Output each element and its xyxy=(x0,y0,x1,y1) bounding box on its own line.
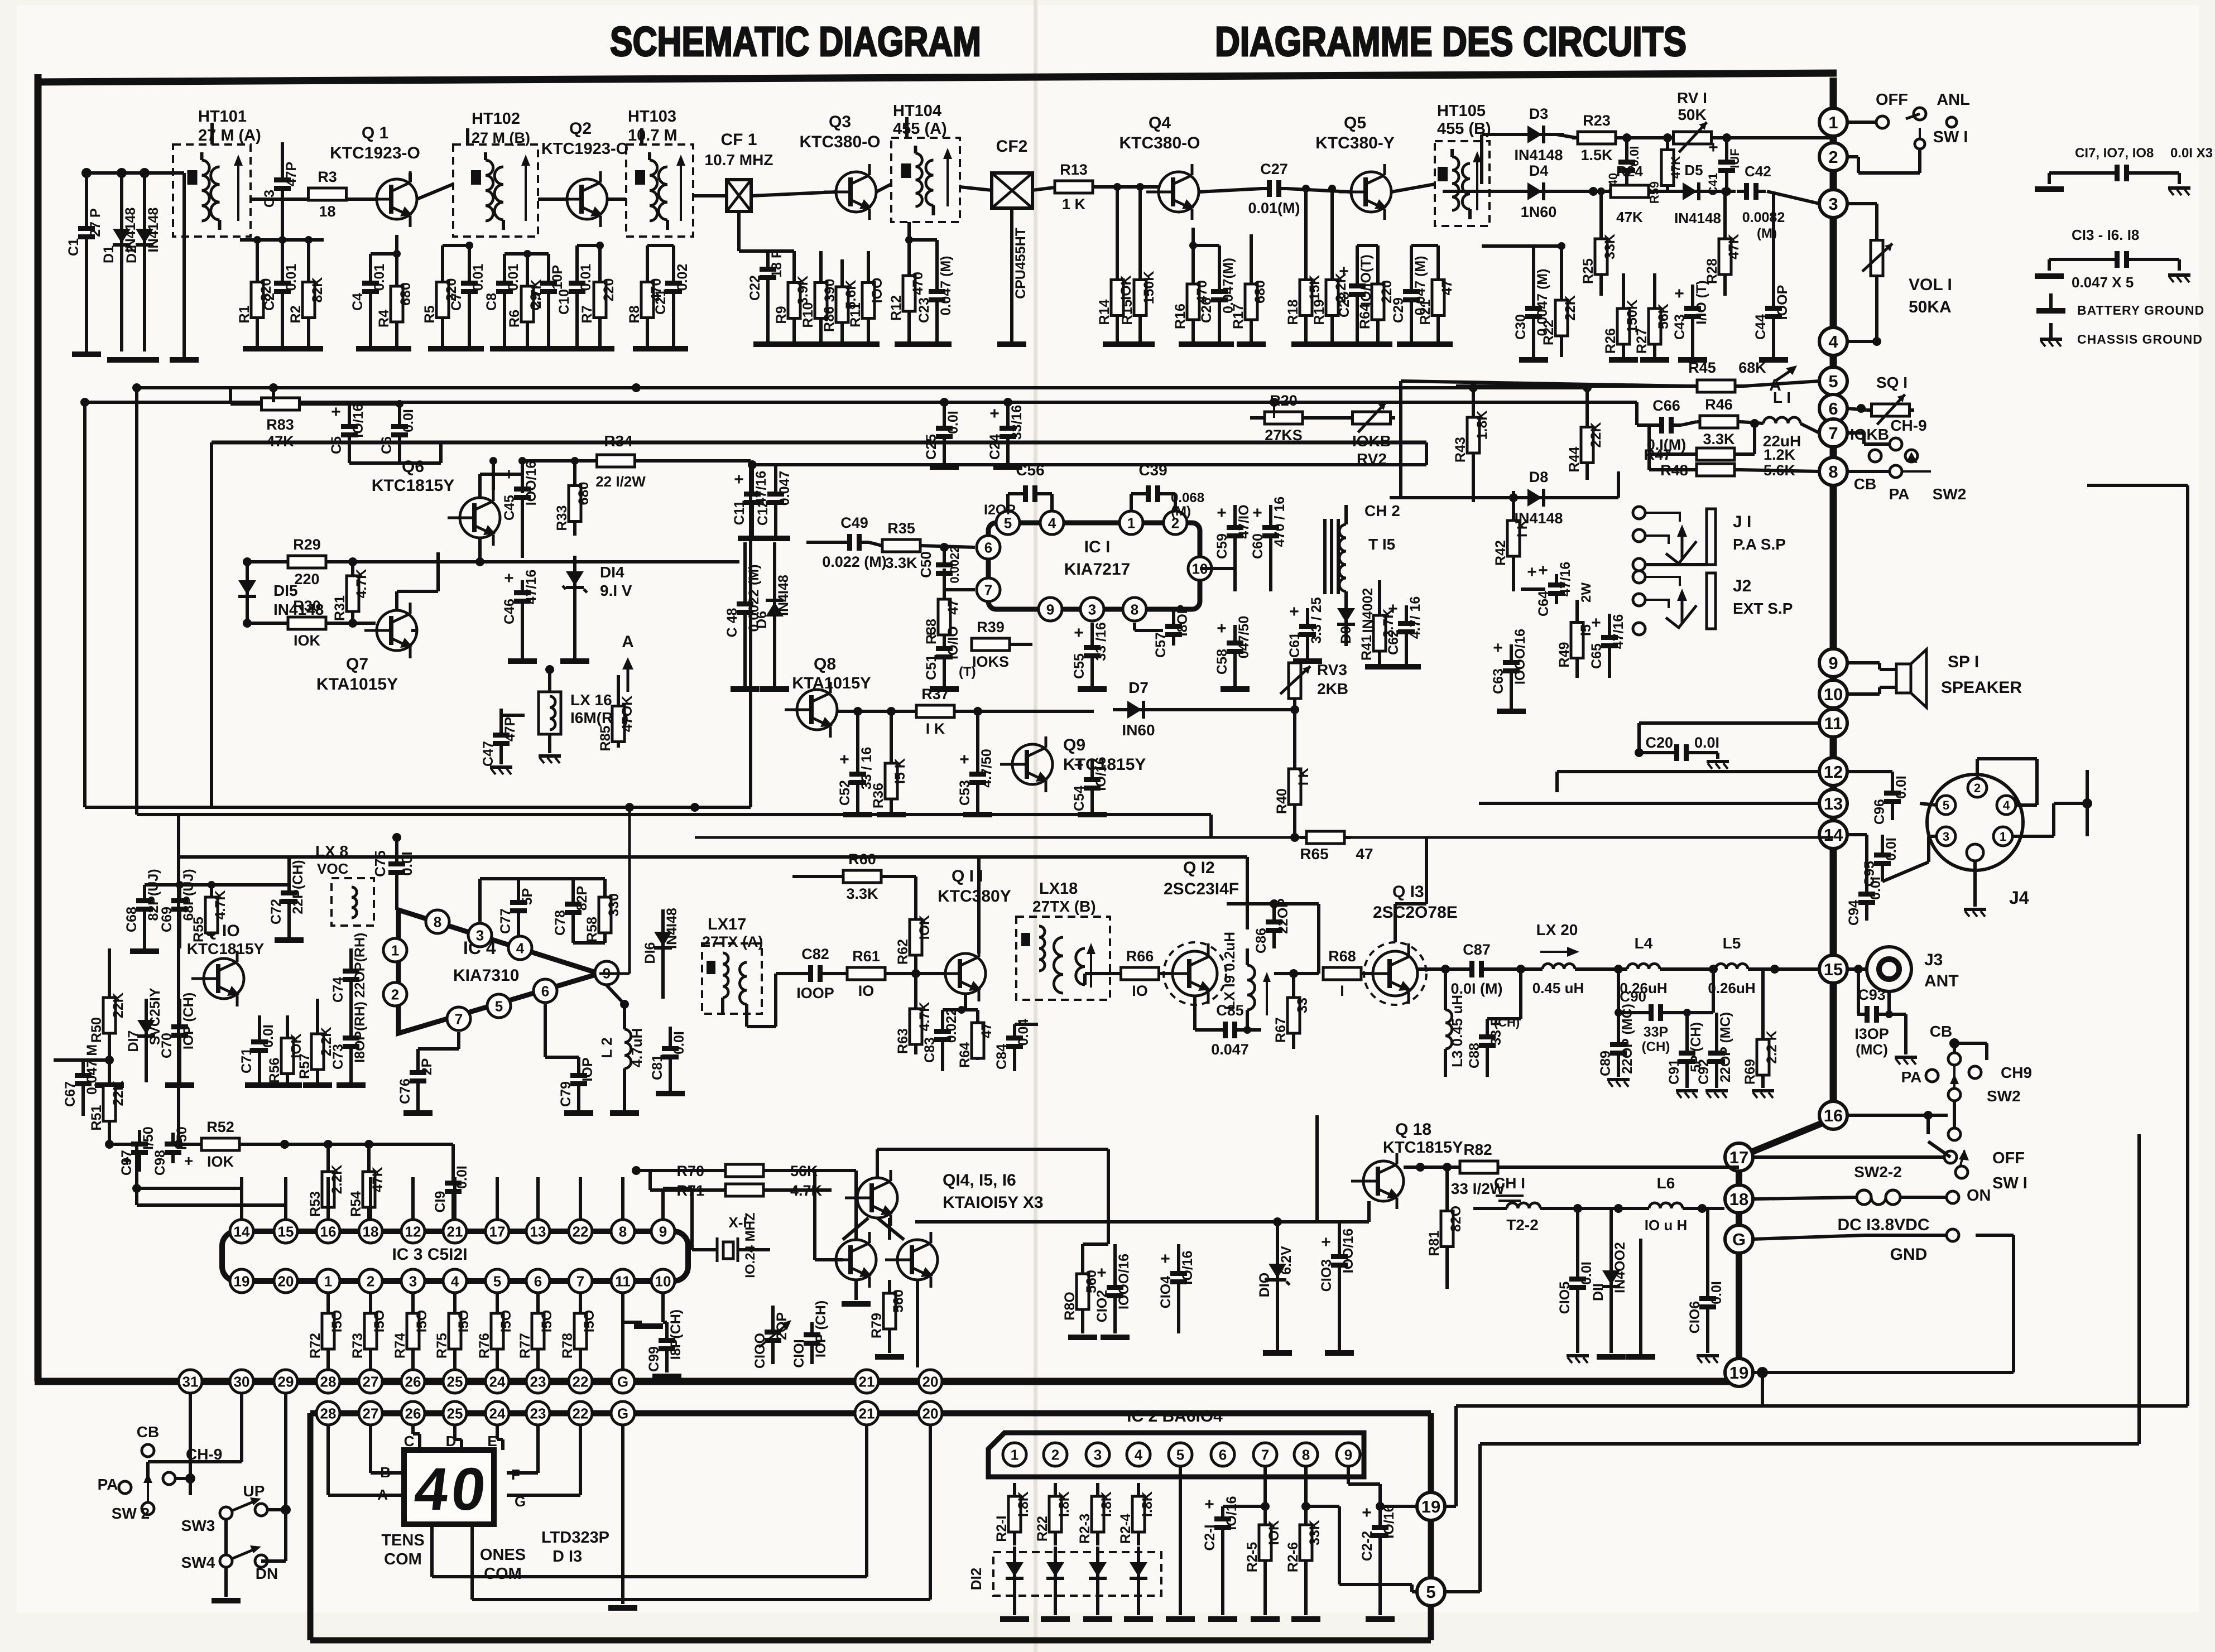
resistor R6 xyxy=(507,254,544,346)
svg-text:0.047: 0.047 xyxy=(777,471,792,506)
capacitor C86 xyxy=(1227,898,1319,974)
svg-text:C55: C55 xyxy=(1072,653,1087,679)
ground R5 C7 xyxy=(428,346,484,351)
svg-text:IO/IO: IO/IO xyxy=(945,626,961,659)
svg-text:5: 5 xyxy=(495,998,503,1014)
svg-text:+: + xyxy=(1321,1233,1331,1251)
ceramic filter CF1 xyxy=(705,131,773,211)
resistor R85 xyxy=(598,675,635,751)
border frame top xyxy=(35,73,1837,82)
terminal 11 xyxy=(1819,709,1847,737)
IC3 pin 14 top xyxy=(230,1220,253,1243)
capacitor C44 xyxy=(1753,191,1790,357)
svg-text:23: 23 xyxy=(530,1405,546,1422)
coil L6 xyxy=(1614,1174,1724,1234)
svg-text:KTC380-Y: KTC380-Y xyxy=(1315,134,1395,152)
svg-text:+: + xyxy=(1591,614,1601,632)
svg-text:4.7K: 4.7K xyxy=(354,569,369,599)
IC3 pin 10 bottom xyxy=(651,1269,675,1293)
zener D10 xyxy=(1257,1217,1294,1350)
svg-text:R22: R22 xyxy=(1541,320,1556,345)
svg-text:Q6: Q6 xyxy=(402,457,424,476)
svg-text:R17: R17 xyxy=(1231,304,1246,329)
svg-text:IN60: IN60 xyxy=(1122,721,1155,739)
ground R14 R15 xyxy=(1103,341,1155,347)
svg-text:560: 560 xyxy=(891,1289,906,1313)
svg-text:+: + xyxy=(1160,1250,1170,1268)
svg-text:4: 4 xyxy=(2003,798,2010,812)
choke CH2 T15 xyxy=(1325,502,1400,609)
svg-text:R42: R42 xyxy=(1493,540,1508,566)
svg-text:SW2: SW2 xyxy=(1933,485,1967,503)
svg-text:CB: CB xyxy=(1854,475,1876,493)
wire CF2 bottom xyxy=(1012,208,1029,341)
svg-text:R6: R6 xyxy=(507,310,522,327)
svg-text:I5 K: I5 K xyxy=(892,758,908,784)
IC2 pin 3 xyxy=(1086,1443,1109,1466)
svg-text:CIO6: CIO6 xyxy=(1687,1301,1703,1333)
svg-text:C42: C42 xyxy=(1745,163,1771,180)
resistor R23 xyxy=(1572,112,1621,163)
svg-text:R9: R9 xyxy=(773,306,789,324)
svg-text:C49: C49 xyxy=(840,514,868,531)
display seg wires xyxy=(328,1425,580,1495)
svg-text:IN4148: IN4148 xyxy=(1514,510,1563,527)
svg-text:27TX (A): 27TX (A) xyxy=(702,933,763,950)
svg-text:27 M (A): 27 M (A) xyxy=(198,127,261,145)
svg-text:SW I: SW I xyxy=(1933,128,1968,146)
svg-text:J3: J3 xyxy=(1924,951,1943,969)
svg-text:14: 14 xyxy=(1824,825,1843,845)
svg-text:IOKS: IOKS xyxy=(972,653,1009,670)
svg-text:IOP (CH): IOP (CH) xyxy=(181,993,196,1049)
svg-text:6: 6 xyxy=(1828,399,1838,418)
capacitor C103 xyxy=(1319,1222,1356,1350)
svg-text:A: A xyxy=(622,633,634,651)
svg-text:BATTERY GROUND: BATTERY GROUND xyxy=(2077,303,2204,317)
svg-text:R33: R33 xyxy=(554,505,570,531)
svg-text:KTC380-O: KTC380-O xyxy=(799,133,880,151)
bus B pin 27 xyxy=(359,1401,382,1425)
IC4 pin 4 xyxy=(508,936,532,960)
svg-text:4: 4 xyxy=(1828,332,1838,351)
svg-text:CHASSIS GROUND: CHASSIS GROUND xyxy=(2077,332,2203,346)
svg-text:1: 1 xyxy=(2000,830,2006,844)
svg-text:CIO5: CIO5 xyxy=(1557,1282,1573,1314)
svg-text:26: 26 xyxy=(405,1373,421,1390)
IC3 pin 19 bottom xyxy=(230,1269,253,1293)
capacitor C46 xyxy=(502,569,539,658)
svg-text:C63: C63 xyxy=(1491,668,1506,694)
IC4 pin 2 xyxy=(383,982,407,1006)
resistor R64b xyxy=(957,994,994,1068)
IC3 pin 21 top xyxy=(443,1220,467,1243)
capacitor C53 xyxy=(957,707,994,812)
node A arrow xyxy=(1769,365,1797,394)
svg-text:13: 13 xyxy=(1824,794,1843,813)
svg-text:25: 25 xyxy=(447,1405,463,1422)
svg-text:47P: 47P xyxy=(284,162,299,186)
svg-text:470 / 16: 470 / 16 xyxy=(1272,497,1287,547)
capacitor C92 xyxy=(1696,1012,1733,1098)
ground det row xyxy=(1519,357,1788,363)
svg-text:150K: 150K xyxy=(1625,300,1640,333)
svg-text:SP I: SP I xyxy=(1948,653,1979,671)
resistor R46 xyxy=(1697,396,1764,447)
transistor Q2 xyxy=(541,119,628,227)
svg-text:20: 20 xyxy=(922,1405,939,1422)
svg-text:CB: CB xyxy=(137,1423,159,1441)
svg-text:KTC1923-O: KTC1923-O xyxy=(541,140,628,158)
terminal G xyxy=(1725,1225,1753,1253)
svg-text:SPEAKER: SPEAKER xyxy=(1941,678,2022,697)
svg-text:R8: R8 xyxy=(627,305,642,323)
svg-text:1: 1 xyxy=(1011,1446,1018,1463)
IC1 pin 5 xyxy=(996,511,1020,534)
svg-text:D I3: D I3 xyxy=(552,1548,582,1566)
svg-text:0.047 (M): 0.047 (M) xyxy=(938,256,954,316)
svg-text:8: 8 xyxy=(619,1223,627,1240)
svg-text:D4: D4 xyxy=(1529,162,1549,179)
bus pin 27 xyxy=(359,1370,382,1393)
resistor R17 xyxy=(1231,234,1268,341)
svg-text:R62: R62 xyxy=(895,939,911,965)
svg-text:L4: L4 xyxy=(1635,935,1653,952)
svg-text:R45: R45 xyxy=(1688,359,1716,376)
ground C10 R7 xyxy=(563,346,614,351)
IC1 pin 10 xyxy=(1188,557,1212,580)
svg-text:IO/16: IO/16 xyxy=(1381,1504,1397,1538)
svg-text:ON: ON xyxy=(1967,1187,1991,1205)
svg-text:5: 5 xyxy=(1176,1446,1184,1463)
svg-text:R11: R11 xyxy=(848,302,863,327)
svg-text:R79: R79 xyxy=(869,1313,885,1338)
svg-text:KTC1923-O: KTC1923-O xyxy=(330,144,420,162)
svg-text:D5: D5 xyxy=(1684,162,1703,179)
resistor R15 xyxy=(1119,183,1157,341)
terminal 10 xyxy=(1819,680,1847,708)
svg-text:PA: PA xyxy=(1901,1068,1922,1086)
svg-text:+: + xyxy=(839,750,849,769)
svg-text:Q8: Q8 xyxy=(814,655,836,673)
capacitor C94 xyxy=(1846,835,1884,926)
resistor R68 xyxy=(1323,948,1372,999)
resistor R30 xyxy=(247,598,376,649)
svg-text:2: 2 xyxy=(1828,147,1838,167)
svg-text:R10: R10 xyxy=(800,302,816,328)
capacitor C69 xyxy=(159,869,196,948)
svg-text:R58: R58 xyxy=(584,917,600,942)
svg-text:J2: J2 xyxy=(1733,577,1751,595)
resistor R69 xyxy=(1742,969,1780,1098)
wire rail y695 xyxy=(132,383,1587,392)
svg-text:0.0I: 0.0I xyxy=(671,1031,687,1054)
IC4 pin 1 xyxy=(383,938,407,962)
resistor R14 xyxy=(1097,183,1134,341)
svg-text:455 (A): 455 (A) xyxy=(893,120,947,138)
svg-text:R4: R4 xyxy=(376,310,392,327)
svg-text:IOK: IOK xyxy=(1266,1520,1282,1545)
svg-text:(MC): (MC) xyxy=(1856,1041,1888,1058)
svg-text:47K: 47K xyxy=(370,1167,386,1192)
svg-text:UP: UP xyxy=(243,1482,265,1500)
coil L5 xyxy=(1708,935,1819,996)
svg-text:KTC380-O: KTC380-O xyxy=(1119,134,1200,152)
svg-text:0.047: 0.047 xyxy=(1211,1041,1249,1058)
svg-text:3.3K: 3.3K xyxy=(885,555,917,571)
svg-text:+: + xyxy=(1708,138,1718,157)
svg-text:C65: C65 xyxy=(1589,643,1604,669)
svg-text:1.2K: 1.2K xyxy=(1764,446,1796,463)
svg-text:R25: R25 xyxy=(1580,258,1596,284)
svg-text:I/50: I/50 xyxy=(141,1126,156,1150)
svg-text:6: 6 xyxy=(1219,1446,1227,1463)
svg-text:C72: C72 xyxy=(268,899,284,924)
svg-text:0.45 uH: 0.45 uH xyxy=(1532,980,1584,996)
svg-text:R27: R27 xyxy=(1634,328,1650,354)
resistor R2-4 xyxy=(1118,1466,1155,1545)
svg-text:R69: R69 xyxy=(1742,1059,1758,1085)
svg-text:24: 24 xyxy=(489,1405,506,1422)
resistor R79 xyxy=(869,1280,906,1360)
transistor Q18 xyxy=(1351,1120,1463,1209)
svg-text:DII: DII xyxy=(1591,1283,1606,1301)
capacitor C72 xyxy=(268,857,306,943)
svg-text:COM: COM xyxy=(384,1550,422,1568)
wire bottom bus B loop xyxy=(310,1413,1431,1640)
svg-text:6.2V: 6.2V xyxy=(1279,1246,1294,1275)
svg-text:0.0I: 0.0I xyxy=(1884,837,1899,861)
svg-text:0.047 M: 0.047 M xyxy=(84,1044,100,1095)
svg-text:47: 47 xyxy=(979,1023,994,1038)
ground C1 D1 D2 xyxy=(72,351,199,363)
legend C13 capacitor xyxy=(2049,251,2179,271)
svg-text:G: G xyxy=(1732,1230,1746,1249)
svg-text:R26: R26 xyxy=(1603,328,1618,354)
svg-text:IOOO/16: IOOO/16 xyxy=(1116,1254,1132,1309)
svg-text:5P: 5P xyxy=(520,888,535,906)
svg-text:HT105: HT105 xyxy=(1437,102,1486,120)
svg-text:CIOO: CIOO xyxy=(752,1333,768,1369)
svg-text:26: 26 xyxy=(405,1405,421,1422)
wire SW cluster xyxy=(148,1393,286,1603)
svg-text:(CH): (CH) xyxy=(1642,1039,1670,1054)
wire bus y1447 xyxy=(85,465,751,812)
legend C17 capacitor xyxy=(2049,165,2179,184)
resistor R22 xyxy=(1534,242,1578,357)
svg-text:+: + xyxy=(1362,1504,1372,1522)
IC4 pin 8 xyxy=(426,910,449,933)
capacitor C66 xyxy=(1637,397,1697,453)
resistor R43 xyxy=(1453,388,1490,502)
svg-text:IO/16: IO/16 xyxy=(1224,1496,1239,1530)
svg-text:2W: 2W xyxy=(1579,582,1594,603)
svg-text:8: 8 xyxy=(1828,462,1838,481)
svg-text:17: 17 xyxy=(1729,1148,1748,1167)
svg-text:5: 5 xyxy=(493,1273,501,1289)
svg-text:SCHEMATIC DIAGRAM: SCHEMATIC DIAGRAM xyxy=(610,18,981,65)
svg-text:10.7 MHZ: 10.7 MHZ xyxy=(705,151,773,168)
svg-text:0.0I: 0.0I xyxy=(945,411,961,434)
svg-text:R75: R75 xyxy=(434,1333,450,1359)
svg-text:C86: C86 xyxy=(1253,928,1269,953)
resistor R53 xyxy=(307,1144,345,1220)
svg-text:C98: C98 xyxy=(152,1150,168,1176)
capacitor C89 xyxy=(1598,969,1635,1087)
ground R8 C21 xyxy=(633,346,688,351)
svg-text:IO u H: IO u H xyxy=(1645,1217,1688,1234)
IC3 pin stubs top xyxy=(242,1177,623,1220)
bus pin 30 xyxy=(230,1370,253,1393)
svg-text:I3OP: I3OP xyxy=(1854,1025,1889,1042)
legend C13 caption xyxy=(2072,227,2139,243)
svg-text:0.022: 0.022 xyxy=(944,1008,959,1043)
wire IF row xyxy=(960,184,1518,192)
svg-text:24: 24 xyxy=(489,1373,506,1390)
resistor R2-5 xyxy=(1245,1466,1282,1622)
svg-text:20: 20 xyxy=(922,1373,939,1390)
resistor R70 xyxy=(632,1163,856,1240)
svg-text:I8OP(RH): I8OP(RH) xyxy=(352,1001,368,1063)
resistor R12 xyxy=(888,222,926,341)
capacitor C64 xyxy=(1521,561,1573,617)
svg-text:27 M (B): 27 M (B) xyxy=(472,129,530,146)
svg-text:47OK: 47OK xyxy=(619,696,635,732)
svg-text:+: + xyxy=(184,1152,193,1169)
svg-text:0.0I: 0.0I xyxy=(454,1165,470,1189)
ground C8 R6 C9 xyxy=(490,346,563,351)
diode D7 xyxy=(1113,679,1299,739)
svg-text:LX 16: LX 16 xyxy=(570,691,612,709)
transistor Q16 xyxy=(885,1232,938,1288)
svg-text:+: + xyxy=(1074,756,1084,774)
resistor R44 xyxy=(1567,383,1604,480)
capacitor C26 xyxy=(1189,242,1236,341)
switch SW1 OFF ANL xyxy=(1847,91,1970,173)
terminal 1 xyxy=(1819,108,1847,136)
IC1 pin 8 xyxy=(1123,598,1146,621)
svg-text:SW2: SW2 xyxy=(1987,1087,2021,1105)
terminal 3 xyxy=(1819,190,1847,218)
switch SW2 lower xyxy=(1901,1023,2032,1105)
trimmer C100 xyxy=(752,1306,791,1369)
svg-text:47: 47 xyxy=(1439,280,1455,296)
svg-text:C88: C88 xyxy=(1467,1043,1482,1068)
svg-text:47/IO: 47/IO xyxy=(1236,504,1252,538)
svg-text:IN4148: IN4148 xyxy=(146,208,161,253)
svg-text:KTAIOI5Y X3: KTAIOI5Y X3 xyxy=(943,1193,1044,1212)
svg-text:+: + xyxy=(1074,624,1084,642)
svg-text:R50: R50 xyxy=(89,1017,104,1043)
svg-text:ANT: ANT xyxy=(1924,972,1959,990)
svg-text:R1: R1 xyxy=(237,305,252,323)
wire Q6 region xyxy=(397,474,522,630)
capacitor C1 xyxy=(66,168,103,351)
svg-text:KTC380Y: KTC380Y xyxy=(938,887,1011,906)
legend chassis ground xyxy=(2040,323,2203,346)
svg-text:2P: 2P xyxy=(419,1058,435,1076)
capacitor C73 xyxy=(330,999,368,1082)
svg-text:C10: C10 xyxy=(556,289,572,315)
svg-text:IN4I48: IN4I48 xyxy=(776,575,791,616)
svg-text:DI5: DI5 xyxy=(273,582,298,599)
ground power row xyxy=(1567,1239,1719,1363)
terminal 6 xyxy=(1819,394,1847,422)
IC3 pin 7 bottom xyxy=(569,1269,592,1293)
svg-text:R35: R35 xyxy=(887,520,915,537)
svg-text:0.047 X 5: 0.047 X 5 xyxy=(2072,274,2134,291)
svg-text:+: + xyxy=(1527,563,1537,581)
svg-text:C79: C79 xyxy=(558,1081,574,1107)
capacitor C67 xyxy=(54,1044,109,1116)
svg-text:C64: C64 xyxy=(1536,591,1551,617)
svg-text:22K: 22K xyxy=(110,1081,126,1106)
trap LX16 xyxy=(539,665,628,753)
svg-text:R52: R52 xyxy=(206,1119,234,1135)
svg-text:C94: C94 xyxy=(1846,900,1862,926)
IC2 pin 8 xyxy=(1294,1443,1318,1466)
svg-text:IO.24 MHZ: IO.24 MHZ xyxy=(743,1212,758,1278)
svg-text:+: + xyxy=(1217,504,1227,522)
svg-text:18 P: 18 P xyxy=(769,249,785,277)
svg-text:CI7, IO7, IO8: CI7, IO7, IO8 xyxy=(2075,146,2154,161)
svg-text:I.8K: I.8K xyxy=(1099,1491,1114,1517)
capacitor C95 xyxy=(1862,835,1899,887)
resistor R60 xyxy=(792,851,916,904)
svg-text:R16: R16 xyxy=(1173,304,1188,329)
resistor R83 xyxy=(230,388,326,450)
svg-text:C59: C59 xyxy=(1214,533,1230,559)
svg-text:G: G xyxy=(617,1405,628,1422)
resistor R82 xyxy=(1404,1141,1739,1197)
svg-text:OFF: OFF xyxy=(1876,91,1908,109)
svg-text:C78: C78 xyxy=(552,910,568,936)
diode D1 xyxy=(101,168,138,351)
svg-text:82P: 82P xyxy=(574,886,590,911)
svg-text:ANL: ANL xyxy=(1937,91,1970,109)
svg-text:T I5: T I5 xyxy=(1368,536,1395,553)
wire rail y721 xyxy=(80,398,1637,425)
svg-text:9.I V: 9.I V xyxy=(600,582,632,599)
wire IC3 pin9 xtal xyxy=(623,1188,692,1370)
svg-text:SW4: SW4 xyxy=(181,1554,215,1571)
resistor R56 xyxy=(267,1015,304,1083)
bus pin 26 xyxy=(401,1370,425,1393)
bus pin 24 xyxy=(486,1370,509,1393)
svg-text:2: 2 xyxy=(367,1273,374,1289)
wire GND terminal xyxy=(1753,1229,1959,1264)
svg-text:22K: 22K xyxy=(1588,422,1604,448)
capacitor C105 xyxy=(1557,1204,1594,1353)
switch SW2 to 16 xyxy=(1847,1101,1961,1140)
svg-text:7: 7 xyxy=(576,1273,584,1289)
svg-text:15: 15 xyxy=(1824,960,1843,979)
capacitor C96 xyxy=(1847,772,1909,825)
svg-text:C2-2: C2-2 xyxy=(1359,1531,1375,1561)
svg-text:+: + xyxy=(989,404,1000,423)
svg-text:5: 5 xyxy=(1943,798,1949,812)
svg-text:R36: R36 xyxy=(871,783,886,808)
svg-text:L6: L6 xyxy=(1657,1174,1675,1192)
terminal 7 xyxy=(1819,419,1847,447)
svg-text:+: + xyxy=(1388,600,1398,618)
capacitor C41 xyxy=(1706,138,1742,195)
switch cluster CB CH9 PA xyxy=(98,1423,223,1522)
wire 5 link right xyxy=(1445,1134,2139,1592)
svg-text:R2-3: R2-3 xyxy=(1077,1514,1093,1544)
svg-text:C74: C74 xyxy=(330,977,346,1003)
terminal 18 xyxy=(1725,1185,1753,1213)
